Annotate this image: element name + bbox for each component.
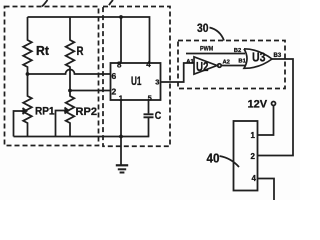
svg-text:U1: U1 xyxy=(131,76,142,88)
svg-text:1: 1 xyxy=(251,131,256,140)
svg-text:4: 4 xyxy=(252,174,257,183)
svg-text:RP1: RP1 xyxy=(35,106,55,118)
svg-text:8: 8 xyxy=(117,60,122,69)
svg-text:40: 40 xyxy=(207,151,220,166)
svg-text:2: 2 xyxy=(112,86,117,96)
svg-text:A1: A1 xyxy=(186,59,194,65)
svg-text:3: 3 xyxy=(155,77,159,86)
svg-text:4: 4 xyxy=(146,60,151,69)
svg-text:B2: B2 xyxy=(234,48,241,54)
svg-text:1: 1 xyxy=(119,93,123,102)
svg-text:2: 2 xyxy=(251,152,256,161)
svg-text:B3: B3 xyxy=(274,53,282,59)
svg-text:RP2: RP2 xyxy=(76,106,98,118)
svg-text:U2: U2 xyxy=(196,59,209,74)
svg-text:B1: B1 xyxy=(238,59,246,65)
svg-text:5: 5 xyxy=(148,93,152,102)
svg-text:R: R xyxy=(77,46,85,58)
svg-text:6: 6 xyxy=(112,71,117,81)
svg-text:12V: 12V xyxy=(248,99,268,111)
svg-text:C: C xyxy=(155,110,162,122)
svg-text:U3: U3 xyxy=(252,49,266,64)
svg-text:PWM: PWM xyxy=(200,46,213,53)
svg-text:Rt: Rt xyxy=(36,44,50,58)
svg-text:30: 30 xyxy=(197,21,209,35)
svg-text:A2: A2 xyxy=(223,60,230,66)
